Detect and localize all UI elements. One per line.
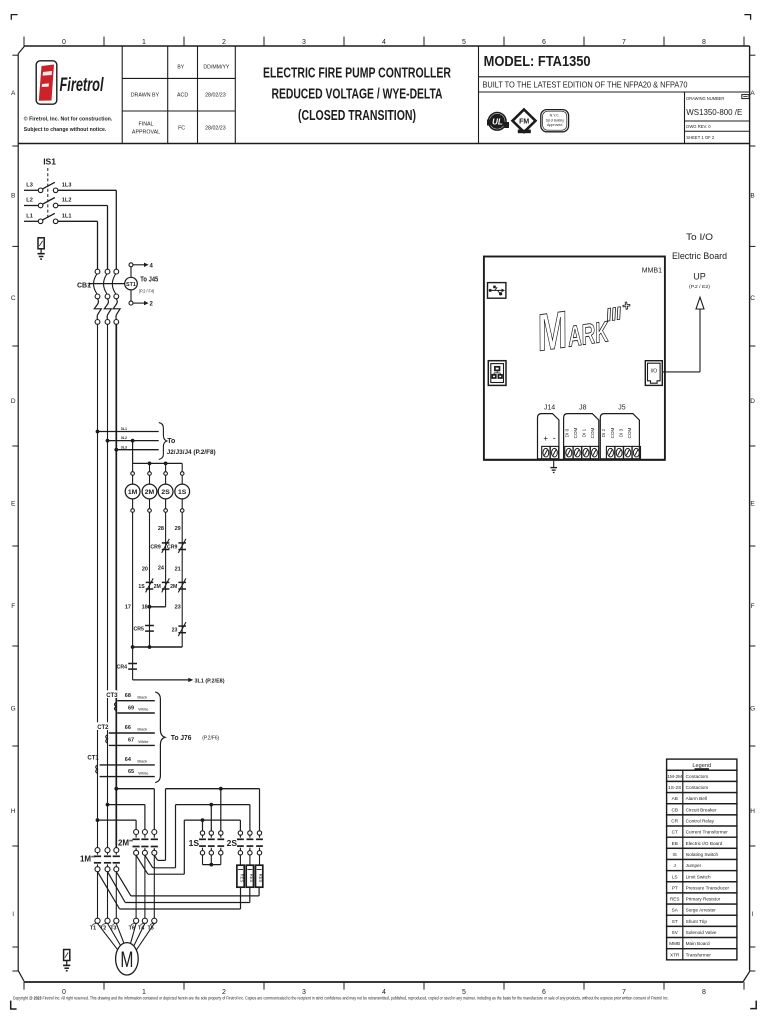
- svg-text:E: E: [750, 500, 755, 507]
- svg-text:ST: ST: [672, 919, 678, 924]
- svg-text:28/02/23: 28/02/23: [205, 93, 226, 99]
- svg-text:To I/O: To I/O: [686, 232, 713, 242]
- svg-text:PT: PT: [672, 885, 678, 890]
- svg-text:CB: CB: [671, 807, 678, 812]
- svg-text:SV: SV: [672, 930, 679, 935]
- svg-text:Shunt Trip: Shunt Trip: [686, 919, 708, 924]
- svg-text:M: M: [120, 947, 133, 972]
- svg-text:Current Transformer: Current Transformer: [686, 830, 729, 835]
- svg-text:E: E: [11, 500, 16, 507]
- svg-text:7: 7: [622, 39, 626, 46]
- svg-text:2M: 2M: [170, 584, 177, 590]
- svg-text:To J76: To J76: [171, 733, 192, 742]
- svg-text:DI 2: DI 2: [601, 428, 606, 437]
- svg-text:To: To: [167, 438, 175, 445]
- svg-text:Main Board: Main Board: [686, 941, 710, 946]
- svg-text:Isolating Switch: Isolating Switch: [686, 852, 719, 857]
- svg-text:H: H: [11, 808, 16, 815]
- svg-text:CT: CT: [672, 830, 678, 835]
- svg-text:4: 4: [382, 39, 386, 46]
- svg-text:1S: 1S: [189, 838, 200, 848]
- svg-text:8: 8: [702, 989, 706, 996]
- svg-text:RES: RES: [240, 874, 245, 883]
- svg-text:G: G: [11, 706, 16, 713]
- svg-text:Dpt of Building: Dpt of Building: [546, 118, 564, 122]
- svg-text:DWG REV. 0: DWG REV. 0: [686, 124, 711, 129]
- svg-text:Jumper: Jumper: [686, 863, 702, 868]
- svg-text:L1: L1: [26, 214, 33, 220]
- svg-text:3L2: 3L2: [121, 436, 127, 440]
- svg-text:2S: 2S: [161, 489, 170, 496]
- svg-text:17: 17: [125, 604, 131, 610]
- svg-text:Contactors: Contactors: [686, 774, 709, 779]
- svg-text:COM: COM: [627, 427, 632, 438]
- svg-text:FC: FC: [178, 126, 185, 132]
- svg-text:Surge Arrester: Surge Arrester: [686, 908, 717, 913]
- svg-text:D: D: [11, 398, 16, 405]
- svg-text:DI 0: DI 0: [564, 428, 569, 437]
- svg-text:BY: BY: [177, 64, 184, 70]
- svg-text:Black: Black: [137, 759, 147, 764]
- svg-text:2M: 2M: [145, 489, 155, 496]
- svg-text:+: +: [543, 434, 548, 443]
- svg-text:Firetrol: Firetrol: [60, 74, 104, 96]
- svg-text:J8: J8: [579, 405, 587, 412]
- svg-text:CT2: CT2: [97, 725, 109, 731]
- svg-text:COM: COM: [610, 427, 615, 438]
- svg-text:Primary Resistor: Primary Resistor: [686, 897, 721, 902]
- svg-text:1L2: 1L2: [62, 198, 72, 204]
- svg-text:C: C: [750, 295, 755, 302]
- svg-text:3: 3: [302, 39, 306, 46]
- svg-text:J5: J5: [618, 405, 626, 412]
- svg-text:IS1: IS1: [43, 156, 56, 166]
- svg-text:(P.2 / F4): (P.2 / F4): [139, 288, 155, 293]
- svg-text:CR5: CR5: [134, 627, 144, 633]
- svg-text:B: B: [750, 193, 754, 200]
- svg-text:1S: 1S: [178, 489, 187, 496]
- svg-text:29: 29: [175, 526, 181, 532]
- svg-text:Subject to change without noti: Subject to change without notice.: [24, 127, 107, 133]
- svg-text:XTR: XTR: [670, 952, 680, 957]
- svg-text:3L1 (P.2/E8): 3L1 (P.2/E8): [195, 678, 225, 684]
- svg-text:3L3: 3L3: [121, 445, 127, 449]
- svg-text:DRAWN BY: DRAWN BY: [131, 93, 160, 99]
- svg-text:68: 68: [125, 693, 131, 699]
- svg-text:LS: LS: [672, 874, 678, 879]
- svg-text:COM: COM: [590, 427, 595, 438]
- svg-text:WS1350-800 /E: WS1350-800 /E: [686, 107, 742, 117]
- svg-text:Electric I/O Board: Electric I/O Board: [686, 841, 723, 846]
- svg-text:DD/MM/YY: DD/MM/YY: [203, 64, 230, 70]
- svg-text:A: A: [11, 90, 16, 97]
- svg-text:20: 20: [142, 566, 148, 572]
- svg-text:66: 66: [125, 725, 131, 731]
- svg-text:23: 23: [172, 628, 178, 634]
- svg-text:8: 8: [702, 39, 706, 46]
- svg-text:0: 0: [62, 39, 66, 46]
- svg-text:3L1: 3L1: [121, 427, 127, 431]
- svg-text:DI 3: DI 3: [618, 428, 623, 437]
- svg-text:ST1: ST1: [126, 282, 136, 288]
- svg-text:28: 28: [158, 526, 164, 532]
- svg-text:1S-2S: 1S-2S: [668, 785, 681, 790]
- svg-text:65: 65: [128, 769, 134, 775]
- svg-text:ACD: ACD: [177, 93, 188, 99]
- svg-text:CB1: CB1: [77, 282, 91, 289]
- svg-text:N.Y.C.: N.Y.C.: [550, 114, 560, 118]
- svg-text:Electric Board: Electric Board: [672, 251, 727, 261]
- svg-text:DRAWING NUMBER: DRAWING NUMBER: [686, 96, 724, 101]
- svg-text:White: White: [138, 739, 149, 744]
- svg-text:I: I: [752, 911, 754, 918]
- svg-text:24: 24: [158, 566, 165, 572]
- svg-text:2: 2: [222, 39, 226, 46]
- svg-text:© Firetrol, Inc. Not for cons: © Firetrol, Inc. Not for construction.: [24, 115, 113, 122]
- svg-text:ELECTRIC FIRE PUMP CONTROLLER: ELECTRIC FIRE PUMP CONTROLLER: [263, 65, 451, 82]
- svg-text:RES: RES: [670, 897, 680, 902]
- svg-text:MMB: MMB: [669, 941, 680, 946]
- svg-text:CR9: CR9: [167, 545, 177, 551]
- svg-text:MMB1: MMB1: [642, 267, 662, 274]
- svg-text:SA: SA: [672, 908, 679, 913]
- svg-text:Control Relay: Control Relay: [686, 819, 715, 824]
- svg-text:G: G: [750, 706, 755, 713]
- svg-text:UP: UP: [693, 272, 706, 282]
- svg-text:Limit Switch: Limit Switch: [686, 874, 711, 879]
- svg-text:I/O: I/O: [650, 369, 657, 375]
- svg-text:L2: L2: [26, 198, 33, 204]
- svg-text:CT1: CT1: [87, 755, 99, 761]
- svg-text:RES: RES: [249, 874, 254, 883]
- svg-text:F: F: [751, 603, 755, 610]
- svg-text:SHEET 1 OF 2: SHEET 1 OF 2: [686, 135, 715, 140]
- svg-text:Alarm Bell: Alarm Bell: [686, 796, 707, 801]
- svg-text:23: 23: [175, 604, 181, 610]
- svg-text:Black: Black: [137, 694, 147, 699]
- svg-text:Pressure Transducer: Pressure Transducer: [686, 885, 730, 890]
- svg-text:D: D: [750, 398, 755, 405]
- svg-text:ARK: ARK: [565, 316, 612, 354]
- svg-text:18: 18: [142, 604, 148, 610]
- svg-text:1: 1: [142, 39, 146, 46]
- svg-text:EB: EB: [672, 841, 678, 846]
- svg-text:AB: AB: [672, 796, 678, 801]
- svg-text:A: A: [750, 90, 755, 97]
- svg-text:Legend: Legend: [692, 763, 711, 769]
- svg-text:1L3: 1L3: [62, 183, 72, 189]
- svg-text:6: 6: [542, 39, 546, 46]
- svg-text:C: C: [11, 295, 16, 302]
- svg-text:(P.2 / E2): (P.2 / E2): [689, 284, 710, 290]
- svg-text:1M-2M: 1M-2M: [667, 774, 682, 779]
- svg-text:Contactors: Contactors: [686, 785, 709, 790]
- svg-text:2M: 2M: [154, 584, 161, 590]
- svg-text:J14: J14: [544, 405, 555, 412]
- svg-text:White: White: [138, 707, 149, 712]
- svg-text:Circuit Breaker: Circuit Breaker: [686, 807, 717, 812]
- svg-text:CR4: CR4: [117, 665, 127, 671]
- svg-text:RES: RES: [258, 874, 263, 883]
- svg-text:5: 5: [462, 39, 466, 46]
- svg-text:F: F: [11, 603, 15, 610]
- svg-text:BUILT TO THE LATEST EDITION OF: BUILT TO THE LATEST EDITION OF THE NFPA2…: [483, 80, 688, 89]
- svg-text:1M: 1M: [128, 489, 138, 496]
- svg-text:H: H: [750, 808, 755, 815]
- svg-text:(CLOSED TRANSITION): (CLOSED TRANSITION): [298, 107, 416, 124]
- svg-text:Approved: Approved: [547, 123, 562, 127]
- svg-text:IS: IS: [672, 852, 676, 857]
- svg-text:2S: 2S: [227, 838, 238, 848]
- svg-text:DI 1: DI 1: [582, 428, 587, 437]
- svg-text:1S: 1S: [138, 584, 145, 590]
- svg-text:FINAL: FINAL: [138, 121, 153, 127]
- svg-text:21: 21: [175, 566, 181, 572]
- svg-text:B: B: [11, 193, 15, 200]
- svg-text:White: White: [138, 770, 149, 775]
- svg-text:Black: Black: [137, 727, 147, 732]
- svg-text:T1: T1: [90, 926, 96, 932]
- svg-text:Solenoid Valve: Solenoid Valve: [686, 930, 717, 935]
- svg-text:64: 64: [125, 757, 132, 763]
- svg-text:CR: CR: [671, 819, 678, 824]
- svg-text:CR9: CR9: [150, 545, 160, 551]
- svg-text:MODEL: FTA1350: MODEL: FTA1350: [484, 54, 591, 70]
- svg-text:UL: UL: [492, 118, 503, 127]
- svg-text:To J45: To J45: [140, 276, 158, 283]
- svg-text:J: J: [674, 863, 676, 868]
- svg-text:I: I: [12, 911, 14, 918]
- svg-text:67: 67: [128, 738, 134, 744]
- svg-text:69: 69: [128, 705, 134, 711]
- svg-text:(P.2/F6): (P.2/F6): [202, 736, 219, 742]
- svg-text:CT3: CT3: [106, 693, 118, 699]
- svg-text:J2/J3/J4 (P.2/F8): J2/J3/J4 (P.2/F8): [167, 449, 216, 456]
- svg-text:-: -: [553, 433, 556, 443]
- svg-text:FM: FM: [519, 119, 529, 126]
- svg-text:1L1: 1L1: [62, 214, 72, 220]
- svg-text:28/02/23: 28/02/23: [205, 126, 226, 132]
- svg-text:Transformer: Transformer: [686, 952, 712, 957]
- svg-text:REDUCED VOLTAGE / WYE-DELTA: REDUCED VOLTAGE / WYE-DELTA: [272, 85, 443, 102]
- svg-text:L3: L3: [26, 183, 33, 189]
- svg-text:APPROVAL: APPROVAL: [132, 129, 160, 135]
- svg-text:COM: COM: [573, 427, 578, 438]
- svg-text:Copyright @ 2023 Firetrol Inc.: Copyright @ 2023 Firetrol Inc. All right…: [13, 995, 669, 1000]
